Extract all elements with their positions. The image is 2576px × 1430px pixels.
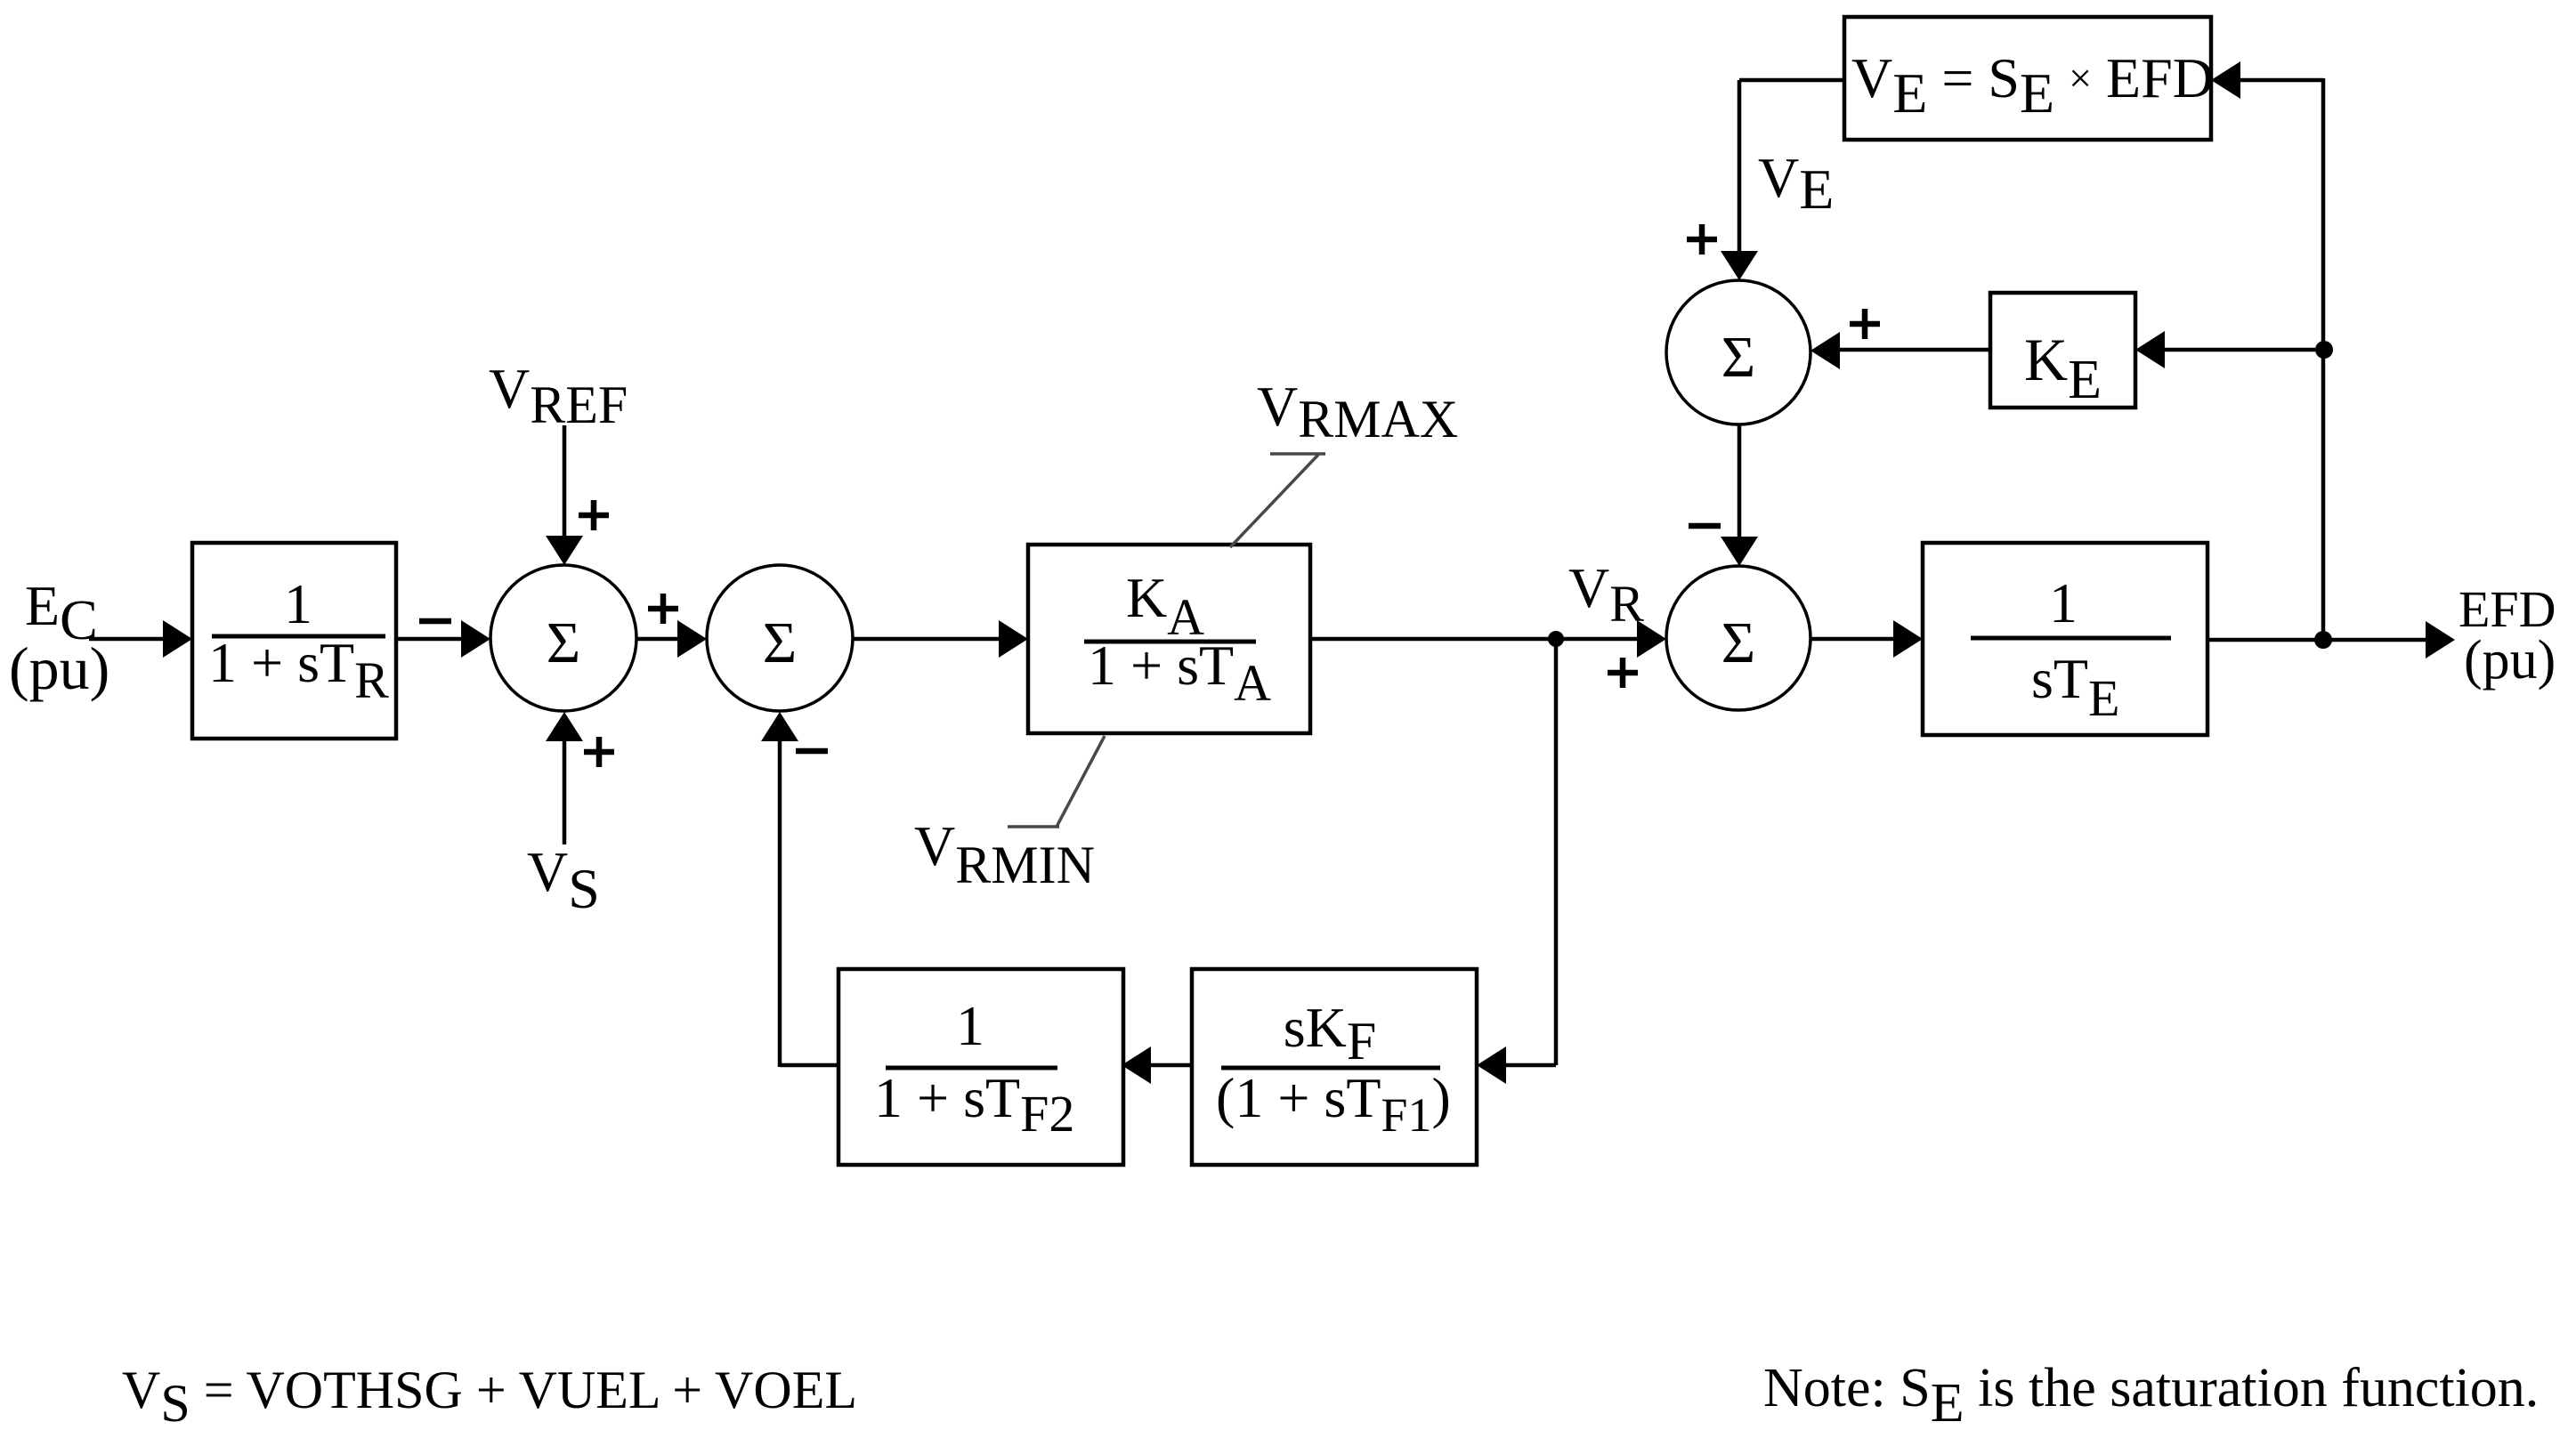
leader line VRMAX to block KA — [1230, 454, 1325, 547]
wire VE block output left then down to S4 — [1739, 80, 1844, 125]
summer S3 (sigma) — [1666, 566, 1810, 710]
svg-text:VE = SE × EFD: VE = SE × EFD — [1851, 46, 2214, 125]
arrowhead into summer S2 — [677, 620, 707, 658]
wire VE down to S4 — [1738, 125, 1742, 252]
svg-text:VREF: VREF — [489, 357, 628, 434]
plus sign at S4 top input — [1687, 224, 1717, 254]
wire TF2 to S2 bottom — [780, 739, 838, 1067]
arrowhead into block KE right side — [2135, 331, 2165, 368]
minus sign at S3 top input — [1689, 523, 1721, 529]
svg-text:Σ: Σ — [1721, 610, 1755, 675]
wire S4 down to S3 — [1738, 424, 1742, 538]
svg-text:sTE: sTE — [2031, 647, 2119, 727]
wire S1 to summer S2 — [636, 637, 682, 642]
plus sign at S2 left input — [648, 594, 678, 624]
node label VREF — [489, 357, 628, 434]
junction node KE takeoff — [2315, 341, 2333, 359]
wire VR node down to feedback row — [1554, 639, 1559, 1065]
plus sign at S3 left input — [1608, 658, 1638, 688]
plus sign at S1 top input — [579, 500, 609, 530]
summer S2 (sigma) — [707, 565, 853, 711]
node label VRMAX — [1257, 375, 1458, 448]
block B1 transfer function 1/(1+sTR) — [192, 543, 396, 739]
arrowhead VS into S1 bottom — [546, 712, 583, 741]
junction node VR — [1548, 631, 1564, 647]
wire EFD feedback riser — [2321, 78, 2326, 640]
svg-text:sKF: sKF — [1284, 996, 1377, 1070]
svg-text:1 + sTR: 1 + sTR — [208, 631, 389, 709]
svg-text:VS: VS — [527, 840, 600, 920]
wire VREF to S1 — [563, 425, 567, 537]
leader line VRMIN to block KA — [1008, 736, 1105, 827]
summer S4 (sigma) — [1666, 280, 1810, 424]
arrowhead into block KA — [999, 620, 1028, 658]
wire KE to S4 — [1838, 348, 1990, 352]
arrowhead into block TE — [1893, 620, 1923, 658]
minus sign at S1 left input — [419, 618, 451, 625]
svg-text:1 + sTA: 1 + sTA — [1088, 634, 1271, 712]
arrowhead EFD output — [2426, 621, 2455, 658]
node label VE — [1758, 146, 1834, 221]
note label SE is the saturation function — [1763, 1358, 2539, 1430]
wire TE output to EFD — [2207, 638, 2426, 642]
svg-text:Σ: Σ — [547, 610, 580, 675]
block B7 gain KE — [1990, 293, 2135, 410]
node label VR — [1568, 556, 1644, 633]
svg-text:1 + sTF2: 1 + sTF2 — [874, 1066, 1074, 1143]
wire EC input — [89, 637, 169, 642]
equation label VS = VOTHSG + VUEL + VOEL — [122, 1361, 857, 1430]
svg-text:1: 1 — [284, 572, 312, 635]
arrowhead KE into S4 right — [1810, 332, 1840, 369]
node label EFD (pu) output — [2459, 580, 2556, 691]
arrowhead into block KF right side — [1477, 1046, 1506, 1084]
block B5 integrator 1/sTE — [1923, 543, 2207, 735]
svg-text:VS = VOTHSG + VUEL + VOEL: VS = VOTHSG + VUEL + VOEL — [122, 1361, 857, 1430]
plus sign at S4 right input — [1850, 309, 1880, 339]
wire feedback row to block KF — [1504, 1063, 1556, 1068]
svg-text:VRMIN: VRMIN — [914, 814, 1095, 894]
svg-text:Σ: Σ — [1721, 325, 1755, 390]
arrowhead VE into S4 top — [1721, 251, 1758, 280]
block B6 saturation VE = SE x EFD — [1844, 17, 2214, 140]
svg-text:VR: VR — [1568, 556, 1644, 633]
block B3 lag 1/(1+sTF2) — [838, 969, 1123, 1165]
junction node EFD takeoff — [2314, 631, 2332, 649]
arrowhead into block TR — [163, 620, 192, 658]
minus sign at S2 bottom input — [796, 748, 828, 755]
svg-text:Σ: Σ — [763, 610, 797, 675]
wire B1 to summer S1 — [396, 637, 463, 642]
node label EC (pu) input — [9, 574, 109, 702]
wire feedback top to VE block — [2239, 78, 2323, 83]
wire S2 to block KA — [853, 637, 1000, 642]
svg-text:VE: VE — [1758, 146, 1834, 221]
node label VS — [527, 840, 600, 920]
arrowhead into block TF2 right side — [1122, 1046, 1151, 1084]
svg-text:(pu): (pu) — [2464, 630, 2556, 691]
block B2 transfer function KA/(1+sTA) — [1028, 545, 1310, 733]
summer S1 (sigma) — [490, 565, 636, 711]
svg-text:VRMAX: VRMAX — [1257, 375, 1458, 448]
node label VRMIN — [914, 814, 1095, 894]
svg-text:Note: SE is the saturation fun: Note: SE is the saturation function. — [1763, 1358, 2539, 1430]
arrowhead S4 output into S3 top — [1721, 537, 1758, 566]
arrowhead feedback into S2 bottom — [761, 712, 798, 741]
wire S3 to block TE — [1810, 637, 1895, 642]
arrowhead VREF into S1 top — [546, 536, 583, 565]
svg-text:(pu): (pu) — [9, 634, 109, 702]
plus sign at S1 bottom input — [584, 737, 614, 767]
arrowhead into VE block right side — [2211, 61, 2240, 99]
wire KE takeoff to block KE — [2163, 348, 2315, 352]
svg-text:(1 + sTF1): (1 + sTF1) — [1216, 1066, 1451, 1142]
svg-text:1: 1 — [956, 994, 984, 1057]
wire KF to block TF2 — [1149, 1063, 1192, 1068]
arrowhead into summer S3 left — [1637, 620, 1666, 658]
svg-text:1: 1 — [2049, 571, 2078, 634]
svg-text:KE: KE — [2024, 326, 2102, 410]
block B4 washout sKF/(1+sTF1) — [1192, 969, 1477, 1165]
arrowhead into summer S1 — [461, 620, 490, 658]
wire VS to S1 — [563, 740, 567, 844]
wire KA to summer S3 — [1310, 637, 1639, 642]
